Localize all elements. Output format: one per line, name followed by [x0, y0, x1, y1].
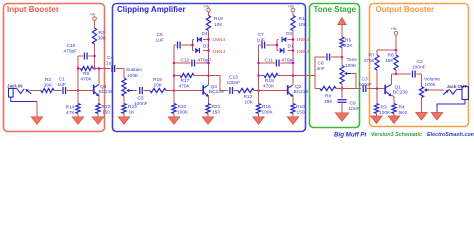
svg-text:+9v: +9v — [391, 26, 398, 31]
ground (R23) — [118, 117, 130, 125]
svg-text:39K: 39K — [98, 36, 107, 42]
svg-text:R15: R15 — [265, 78, 274, 84]
svg-text:R9: R9 — [83, 71, 89, 77]
wire Q3 collector to stage B — [209, 76, 228, 91]
wire Q4 emitter — [98, 95, 99, 104]
svg-text:150: 150 — [297, 110, 305, 116]
wire Q1 emitter — [392, 95, 395, 104]
svg-text:1uF: 1uF — [106, 61, 114, 67]
svg-text:1N914: 1N914 — [213, 49, 226, 54]
svg-text:C13: C13 — [229, 75, 238, 81]
wire R6 to collector line — [395, 70, 397, 74]
transistor Q1 — [385, 84, 408, 96]
wire R5 to tone top — [341, 48, 343, 58]
wire +9v to R3 — [94, 20, 96, 28]
resistor R20 — [172, 104, 189, 116]
wire Q3 feedback left vertical — [173, 45, 175, 91]
svg-text:100nF: 100nF — [134, 101, 148, 107]
capacitor C5 — [134, 87, 148, 107]
power +9v node (stage A) — [203, 4, 210, 12]
svg-text:R2: R2 — [45, 77, 51, 83]
svg-text:R17: R17 — [181, 78, 190, 84]
wire Q3 emitter — [208, 95, 210, 104]
resistor R4 — [392, 104, 407, 117]
wire jack sleeve to ground — [11, 97, 37, 117]
svg-text:C1: C1 — [59, 77, 65, 83]
svg-text:470K: 470K — [179, 84, 191, 90]
svg-text:R12: R12 — [244, 94, 253, 100]
transistor Q4 — [94, 84, 114, 96]
node base/C1 — [77, 89, 80, 92]
svg-text:1N914: 1N914 — [213, 37, 226, 42]
svg-text:39K: 39K — [44, 83, 53, 89]
resistor R15 — [259, 73, 294, 89]
resistor R14 — [66, 104, 81, 117]
jack OUT symbol — [443, 87, 468, 100]
svg-text:D2: D2 — [286, 31, 292, 37]
ground (R22) — [92, 117, 104, 125]
resistor R8 — [315, 86, 342, 105]
svg-text:1uF: 1uF — [58, 82, 66, 88]
svg-text:100nF: 100nF — [412, 65, 426, 71]
capacitor C6 — [156, 32, 193, 49]
svg-text:Version3 Schematic: Version3 Schematic — [371, 132, 422, 138]
svg-text:C9: C9 — [350, 101, 356, 107]
wire top rail — [377, 49, 396, 51]
svg-text:C5: C5 — [138, 96, 144, 102]
node feedback/R17 — [173, 74, 176, 77]
svg-text:D4: D4 — [202, 31, 208, 37]
svg-text:1N914: 1N914 — [297, 49, 310, 54]
svg-text:R21: R21 — [212, 104, 221, 110]
wire sustain bottom to R23 — [123, 96, 125, 104]
svg-text:BC239: BC239 — [209, 89, 224, 95]
wire C9 to ground — [341, 102, 343, 113]
wire volume wiper to jack — [429, 89, 444, 91]
wire Q1 collector vertical — [391, 74, 393, 84]
capacitor C7 — [257, 32, 278, 49]
svg-text:Big Muff Pi: Big Muff Pi — [334, 132, 366, 139]
power +9v node (input booster) — [89, 12, 96, 21]
capacitor C13 — [227, 75, 241, 95]
resistor R19 — [150, 77, 166, 93]
svg-text:R3: R3 — [381, 105, 387, 111]
node feedback/C12 — [173, 62, 176, 65]
wire R7 to base — [376, 70, 378, 89]
svg-text:R20: R20 — [178, 104, 187, 110]
svg-text:100K: 100K — [262, 110, 274, 116]
wire +9v down — [395, 35, 397, 50]
resistor R18 — [206, 16, 223, 31]
wire Q2 emitter — [292, 95, 294, 104]
svg-text:R16: R16 — [262, 104, 271, 110]
svg-text:22K: 22K — [344, 43, 353, 49]
svg-text:R22: R22 — [102, 104, 111, 110]
wire R16 to ground — [258, 114, 260, 117]
svg-text:ElectroSmash.com: ElectroSmash.com — [427, 132, 474, 138]
capacitor C1 — [58, 77, 66, 95]
svg-text:Volume: Volume — [424, 77, 440, 83]
wire R3 down — [376, 89, 378, 104]
section box: Clipping Amplifier — [113, 4, 306, 132]
svg-text:R5: R5 — [345, 38, 351, 44]
svg-text:D3: D3 — [203, 44, 209, 50]
svg-text:BC239: BC239 — [99, 89, 114, 95]
wire tone input vertical — [314, 57, 316, 89]
svg-text:R11: R11 — [299, 16, 308, 22]
node collector/D4 — [207, 38, 210, 41]
svg-text:C6: C6 — [157, 32, 163, 38]
capacitor C10 — [64, 43, 95, 60]
resistor R17 — [174, 73, 209, 89]
resistor R10 — [291, 104, 305, 116]
resistor R21 — [206, 104, 221, 116]
node collector/D2 — [292, 38, 295, 41]
node collector/D1 — [292, 49, 295, 52]
svg-text:470pF: 470pF — [64, 49, 78, 55]
svg-text:BC239: BC239 — [393, 90, 408, 96]
wire C3 to Q1 base — [368, 88, 385, 90]
svg-text:R7: R7 — [369, 53, 375, 59]
ground (R10) — [287, 117, 299, 125]
diode D2 — [277, 31, 293, 42]
svg-text:R18: R18 — [214, 16, 223, 22]
svg-text:100K: 100K — [127, 73, 139, 79]
svg-text:100K: 100K — [379, 110, 391, 116]
svg-text:R19: R19 — [153, 77, 162, 83]
svg-text:R4: R4 — [399, 105, 405, 111]
jack IN symbol — [9, 89, 32, 98]
wire Q4 collector tap — [98, 67, 101, 84]
node feedback/C11 — [257, 62, 260, 65]
resistor R12 — [238, 88, 254, 105]
resistor R23 — [122, 104, 137, 116]
svg-text:R14: R14 — [66, 105, 75, 111]
capacitor C9 — [338, 100, 360, 112]
svg-text:100K: 100K — [177, 110, 189, 116]
svg-text:10K: 10K — [299, 22, 308, 28]
ground (R14) — [72, 117, 84, 125]
svg-text:470K: 470K — [263, 84, 275, 90]
section box: Tone Stage — [310, 4, 360, 128]
capacitor C3 — [359, 77, 378, 93]
svg-text:1N914: 1N914 — [297, 37, 310, 42]
node feedback/R15 — [257, 74, 260, 77]
svg-text:D1: D1 — [288, 44, 294, 50]
svg-text:+9v: +9v — [288, 4, 295, 9]
svg-text:C7: C7 — [258, 32, 264, 38]
node R7/base — [376, 87, 379, 90]
wire base vertical (Q4 feedback) — [77, 56, 79, 91]
node Q3 base — [173, 89, 176, 92]
svg-text:1uF: 1uF — [257, 38, 265, 44]
wire Q3 collector vertical — [208, 31, 210, 85]
svg-text:5K6: 5K6 — [399, 110, 408, 116]
svg-text:Input Booster: Input Booster — [7, 5, 59, 14]
wire R3 to ground — [376, 114, 378, 117]
svg-text:BC239: BC239 — [294, 89, 309, 95]
wire +9v to R11 — [292, 12, 294, 16]
svg-text:R3: R3 — [99, 30, 105, 36]
diode D1 — [277, 44, 294, 54]
wire +9v to R18 — [208, 12, 210, 16]
svg-text:R8: R8 — [325, 94, 331, 100]
diode D4 — [193, 31, 209, 42]
svg-text:1K: 1K — [129, 110, 136, 116]
resistor R22 — [96, 104, 111, 116]
svg-text:Sustain: Sustain — [126, 67, 142, 73]
diode D3 — [193, 44, 210, 54]
wire C4 line down to Sustain — [123, 69, 125, 79]
wire Q2 collector to tone stage — [293, 75, 315, 77]
resistor R2 — [41, 77, 54, 93]
resistor R5 — [340, 37, 353, 49]
svg-text:Output Booster: Output Booster — [376, 5, 435, 14]
wire R12 to base node — [254, 90, 259, 92]
ground (R20) — [168, 117, 180, 125]
svg-text:470K: 470K — [81, 77, 93, 83]
capacitor C8 — [315, 54, 342, 73]
wire R19 to base node — [166, 90, 174, 92]
svg-text:15K: 15K — [385, 58, 394, 64]
svg-text:4nF: 4nF — [317, 66, 325, 72]
power +9v arrow (tone) — [338, 18, 347, 38]
svg-text:10K: 10K — [214, 22, 223, 28]
ground (jack OUT) — [431, 113, 443, 121]
svg-text:1uF: 1uF — [156, 38, 164, 44]
wire base node to R16 — [258, 91, 260, 104]
wire C1 to base — [67, 90, 94, 92]
svg-text:100nF: 100nF — [227, 80, 241, 86]
svg-text:C2: C2 — [417, 59, 423, 65]
wire R20 to ground — [173, 114, 175, 117]
wire base node to Q3 — [174, 90, 203, 92]
potentiometer Volume — [419, 77, 440, 98]
resistor R9 — [78, 66, 95, 82]
svg-text:47K: 47K — [66, 110, 75, 116]
resistor R7 — [364, 50, 380, 70]
svg-text:Tone Stage: Tone Stage — [314, 5, 357, 14]
resistor R6 — [385, 50, 398, 70]
svg-text:470K: 470K — [364, 58, 376, 64]
resistor R11 — [291, 16, 308, 31]
wire jack to R2 — [30, 90, 42, 92]
svg-text:C4: C4 — [107, 55, 113, 61]
potentiometer Sustain — [122, 67, 142, 96]
node R6/C2 — [395, 73, 398, 76]
node base/R9 — [77, 67, 80, 70]
capacitor C2 — [412, 59, 426, 78]
wire base node to R20 — [173, 91, 175, 104]
svg-text:100nF: 100nF — [359, 82, 373, 88]
ground (jack IN) — [31, 117, 43, 125]
node collector/D3 — [207, 49, 210, 52]
power +9v node (stage B) — [288, 4, 295, 12]
svg-text:C8: C8 — [318, 61, 324, 67]
svg-text:Clipping Amplifier: Clipping Amplifier — [117, 5, 186, 14]
svg-text:150: 150 — [212, 110, 220, 116]
svg-text:R10: R10 — [296, 104, 305, 110]
wire Q2 feedback left vertical — [258, 45, 260, 91]
wire tone output — [342, 88, 361, 90]
section box: Output Booster — [370, 4, 469, 127]
wire volume bottom to ground — [421, 98, 423, 113]
wire R10 to ground — [292, 114, 294, 117]
wire R22 to ground — [97, 114, 99, 117]
node tone bottom — [341, 87, 344, 90]
svg-text:+9v: +9v — [89, 12, 96, 17]
wire R4 to ground — [393, 114, 395, 117]
svg-text:150: 150 — [102, 110, 110, 116]
svg-text:100K: 100K — [345, 63, 357, 69]
wire Q1 collector line — [392, 73, 412, 75]
svg-text:100K: 100K — [425, 82, 437, 88]
resistor R16 — [256, 104, 273, 116]
svg-text:C12: C12 — [181, 58, 190, 64]
resistor R3 (output) — [374, 104, 391, 117]
wire tone pot bottom — [341, 84, 343, 89]
wire R14 to ground — [77, 114, 79, 117]
ground (R16) — [253, 117, 265, 125]
transistor Q2 — [288, 84, 309, 97]
transistor Q3 — [203, 84, 224, 97]
node collector/R17 — [207, 74, 210, 77]
node +9v rail — [395, 49, 398, 52]
wire sustain wiper to C5 — [133, 90, 137, 92]
ground (R21) — [202, 117, 214, 125]
ground (C9) — [335, 113, 349, 122]
capacitor C12 — [174, 58, 211, 67]
svg-text:C11: C11 — [265, 58, 274, 64]
ground (Volume) — [416, 113, 428, 121]
wire jack OUT sleeve to ground — [437, 100, 465, 113]
svg-text:C3: C3 — [362, 77, 368, 83]
node collector/C12 — [207, 62, 210, 65]
wire base node to Q2 — [259, 90, 288, 92]
wire R23 to ground — [123, 114, 125, 117]
svg-text:10K: 10K — [245, 100, 254, 106]
svg-text:10nF: 10nF — [349, 106, 360, 112]
wire diode pair left vertical (stage A) — [191, 40, 194, 51]
wire diode pair left vertical (stage B) — [276, 40, 279, 51]
wire tone wiper to output — [351, 74, 356, 89]
svg-text:C10: C10 — [67, 43, 76, 49]
potentiometer Tone — [340, 57, 357, 84]
wire C9 down — [341, 89, 343, 99]
wire C2 to volume pot — [421, 74, 423, 87]
svg-text:+9v: +9v — [203, 4, 210, 9]
ground (R3) — [371, 116, 383, 124]
wire C13 to R12 — [234, 90, 238, 92]
svg-text:Jack IN: Jack IN — [7, 84, 22, 89]
wire C5 to R19 — [144, 90, 150, 92]
capacitor C4 — [95, 55, 125, 72]
capacitor C11 — [259, 58, 296, 67]
svg-text:10K: 10K — [154, 83, 163, 89]
wire collector vertical — [94, 44, 96, 69]
node Q2 base — [257, 89, 260, 92]
power +9v node (output booster) — [391, 26, 398, 35]
wire R21 to ground — [207, 114, 209, 117]
svg-text:R6: R6 — [388, 53, 394, 59]
node collector/R15 — [292, 74, 295, 77]
resistor R3 — [92, 28, 106, 44]
node collector/C10 — [93, 55, 96, 58]
wire Q2 collector vertical — [292, 31, 294, 85]
svg-text:39K: 39K — [324, 99, 333, 105]
section box: Input Booster — [4, 4, 105, 132]
node collector/C11 — [292, 62, 295, 65]
wire R2 to C1 — [54, 90, 62, 92]
wire base to R14 — [77, 91, 79, 104]
node tone top — [341, 56, 344, 59]
node collector/R9/C4 — [93, 67, 96, 70]
svg-text:Tone: Tone — [347, 57, 358, 63]
ground (R4) — [388, 116, 400, 124]
